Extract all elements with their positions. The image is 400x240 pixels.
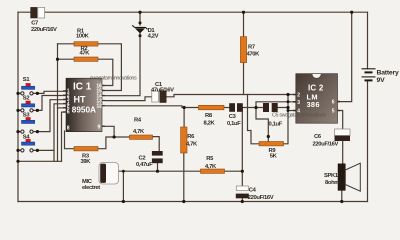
svg-text:swagatam innovations: swagatam innovations — [90, 76, 137, 82]
svg-text:4,7K: 4,7K — [186, 141, 198, 147]
svg-text:C3: C3 — [229, 114, 237, 120]
svg-text:S1: S1 — [23, 77, 31, 83]
svg-text:8,2K: 8,2K — [204, 120, 216, 126]
svg-text:electret: electret — [82, 185, 100, 191]
svg-text:S2: S2 — [23, 95, 30, 101]
svg-text:220uF/16V: 220uF/16V — [31, 27, 57, 33]
svg-text:C2: C2 — [139, 155, 146, 161]
svg-text:IC 2: IC 2 — [308, 84, 324, 93]
svg-text:S4: S4 — [23, 134, 31, 140]
svg-text:2: 2 — [297, 93, 300, 99]
svg-text:C6: C6 — [314, 134, 322, 140]
svg-text:5: 5 — [332, 109, 335, 115]
svg-text:4,7K: 4,7K — [205, 164, 217, 170]
svg-text:5K: 5K — [270, 154, 278, 160]
svg-text:386: 386 — [307, 100, 320, 109]
svg-text:C5 swagatam innovations: C5 swagatam innovations — [272, 113, 326, 119]
svg-text:47uF/16V: 47uF/16V — [151, 88, 174, 94]
svg-text:220uF/16V: 220uF/16V — [313, 141, 339, 147]
svg-text:IC 1: IC 1 — [73, 82, 92, 93]
svg-text:0,1uF: 0,1uF — [227, 121, 241, 127]
svg-text:HT: HT — [74, 94, 86, 104]
svg-text:9: 9 — [98, 124, 101, 130]
svg-text:220uF/16V: 220uF/16V — [248, 195, 274, 201]
svg-text:R5: R5 — [206, 156, 214, 162]
svg-text:39K: 39K — [81, 159, 92, 165]
svg-text:4,7K: 4,7K — [133, 129, 145, 135]
svg-text:R6: R6 — [187, 134, 195, 140]
svg-text:S3: S3 — [23, 113, 31, 119]
svg-text:8950A: 8950A — [72, 106, 96, 115]
svg-text:C7: C7 — [31, 20, 38, 26]
svg-text:MIC: MIC — [82, 179, 93, 185]
svg-text:8: 8 — [67, 126, 70, 132]
svg-text:47K: 47K — [80, 51, 91, 57]
svg-text:6: 6 — [67, 110, 70, 116]
svg-text:C4: C4 — [249, 187, 257, 193]
svg-text:9V: 9V — [377, 77, 386, 84]
svg-text:SPK1: SPK1 — [324, 173, 339, 179]
svg-text:R4: R4 — [134, 118, 142, 124]
svg-text:12: 12 — [96, 104, 102, 110]
svg-text:0,47uF: 0,47uF — [136, 162, 153, 168]
svg-text:R7: R7 — [248, 45, 255, 51]
svg-text:R8: R8 — [205, 113, 213, 119]
svg-text:470K: 470K — [247, 52, 261, 58]
svg-text:0,1uF: 0,1uF — [269, 121, 283, 127]
svg-text:100K: 100K — [76, 34, 90, 40]
svg-text:8ohm: 8ohm — [325, 180, 339, 186]
svg-text:3: 3 — [297, 100, 300, 106]
svg-text:6: 6 — [332, 100, 335, 106]
svg-text:Battery: Battery — [377, 70, 399, 77]
svg-text:4,2V: 4,2V — [148, 34, 159, 40]
